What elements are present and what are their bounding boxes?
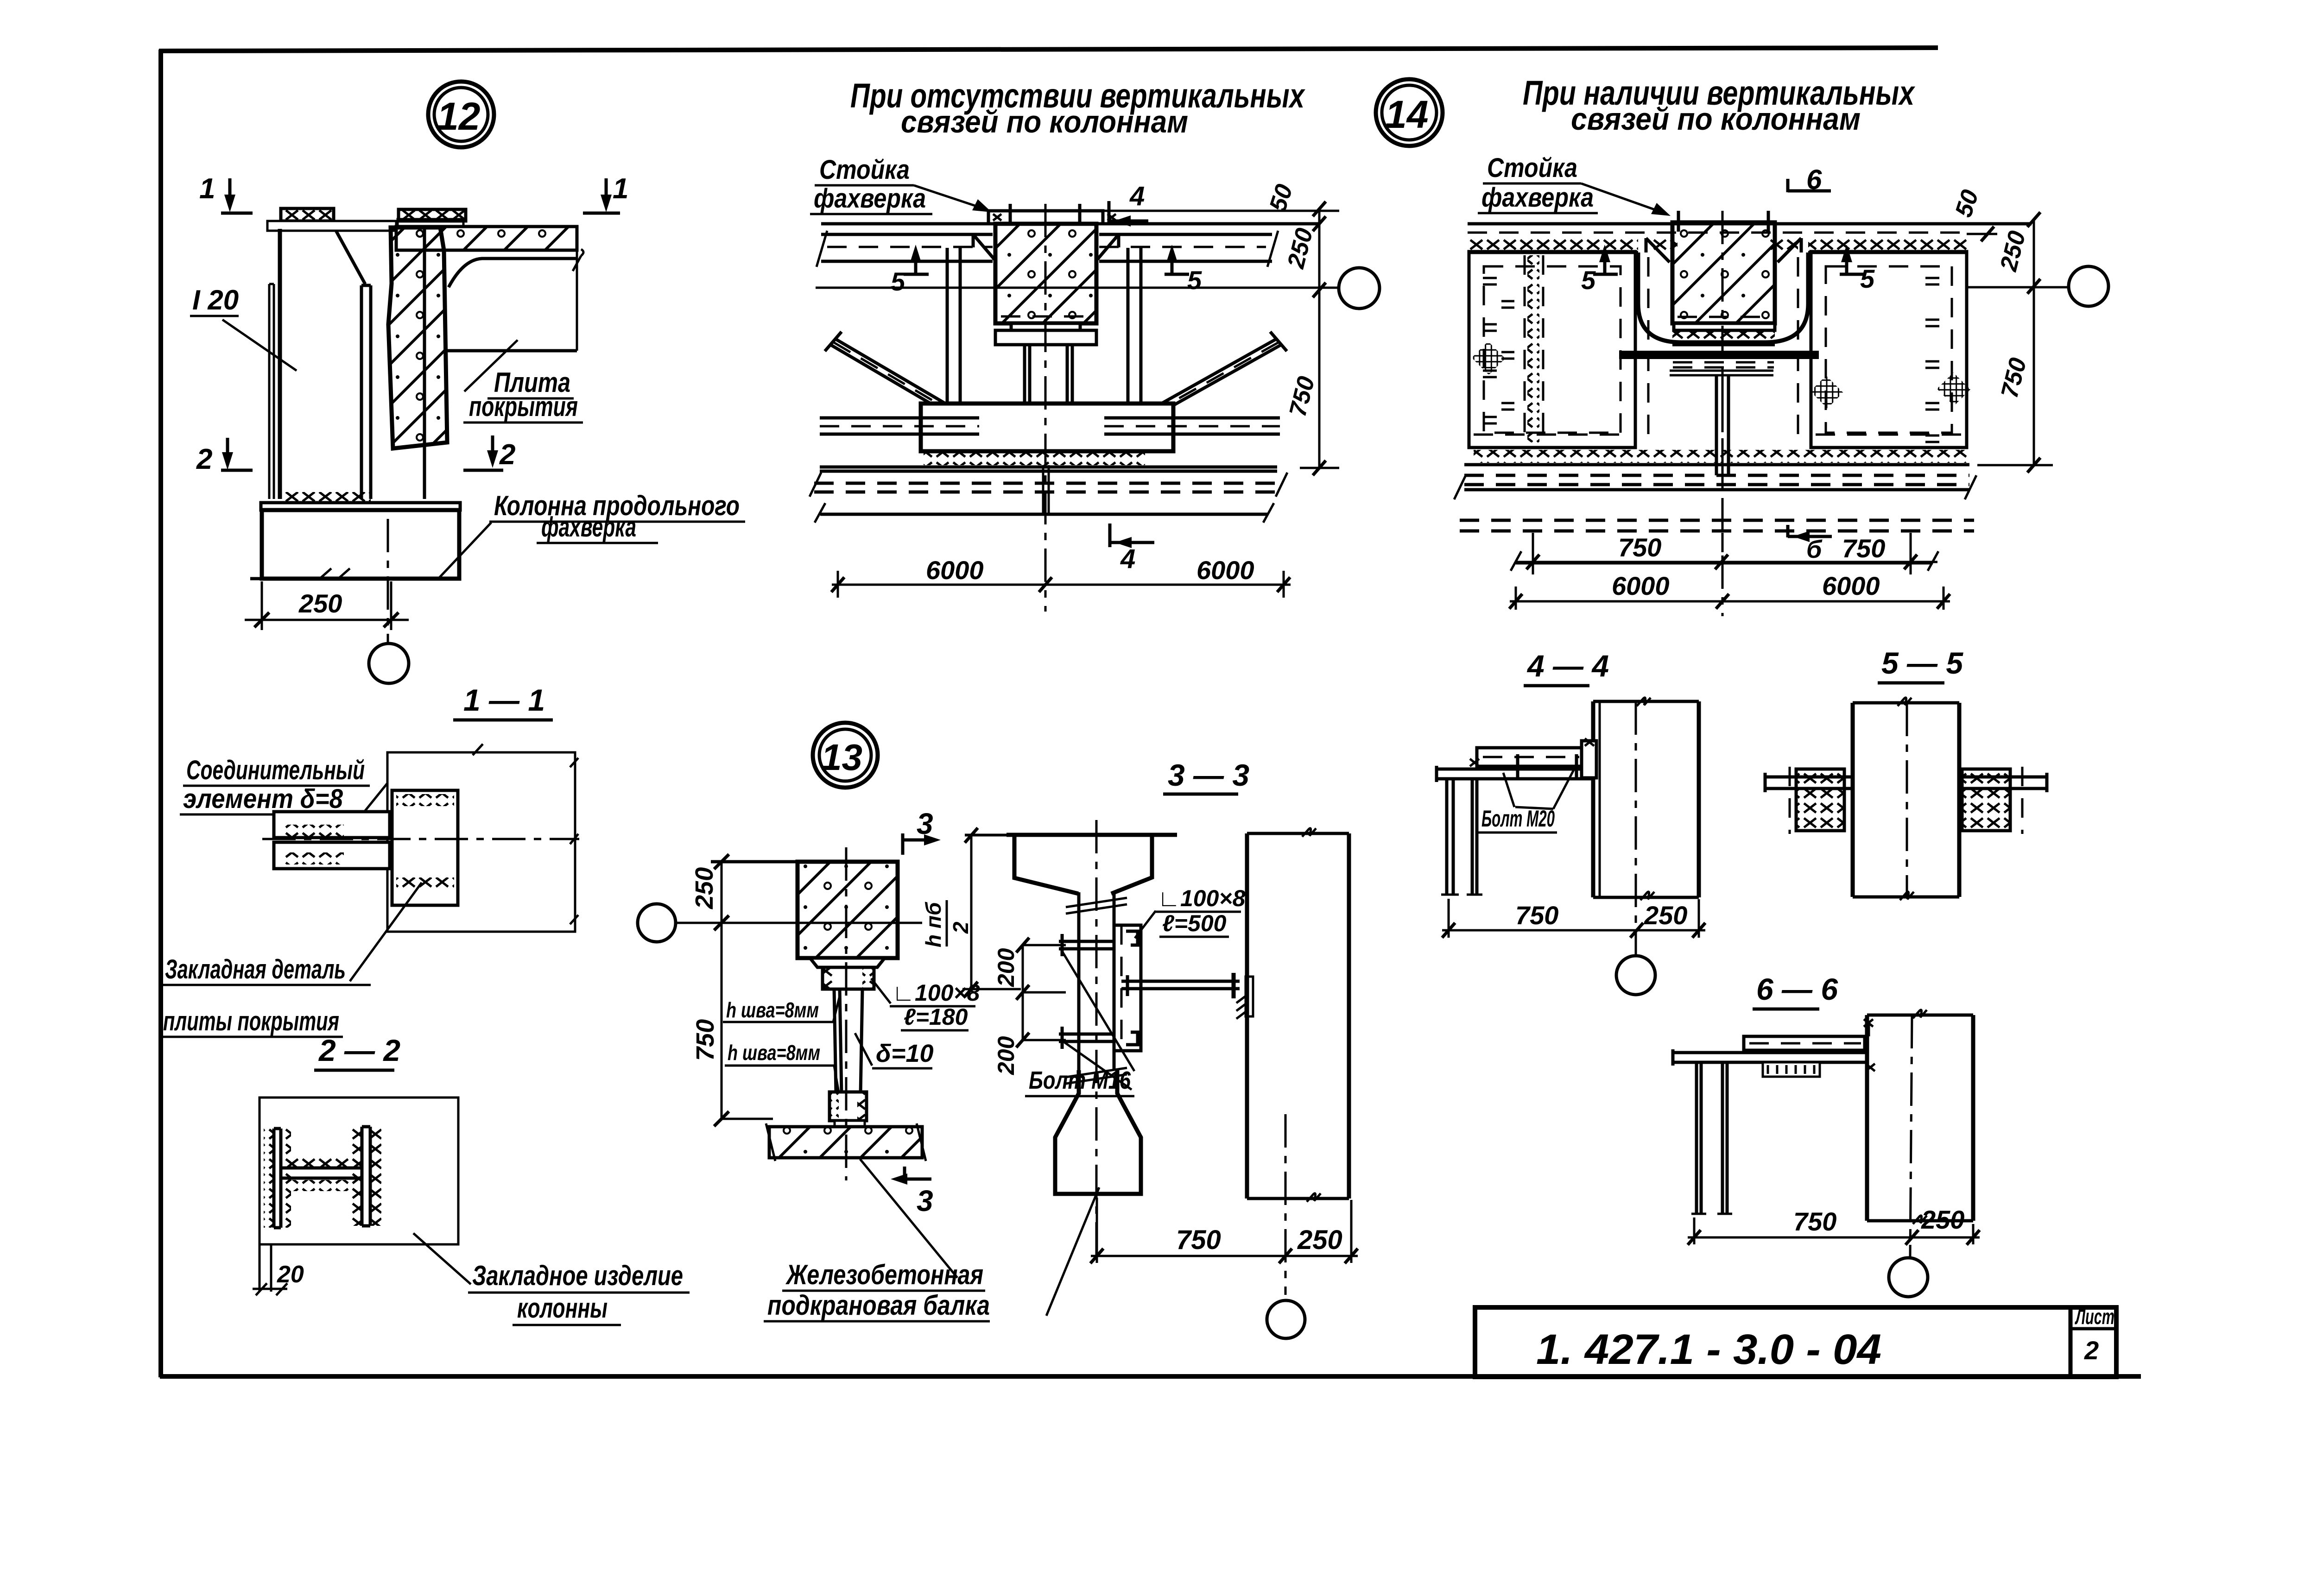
svg-text:750: 750	[1176, 1225, 1221, 1255]
left panel	[1469, 252, 1635, 448]
post bottom dashes	[1001, 315, 1091, 318]
svg-text:6000: 6000	[926, 555, 984, 585]
sheet frame	[159, 48, 2141, 1377]
bottom chord rail left	[820, 418, 979, 434]
post cap plate	[988, 211, 1103, 224]
svg-text:6 — 6: 6 — 6	[1756, 972, 1838, 1006]
column break squiggles	[1302, 828, 1321, 1202]
line under weld row	[1672, 343, 1775, 347]
grid axis line horizontal	[816, 287, 1339, 289]
dim hпб/2 line	[962, 835, 1157, 989]
svg-text:фахверка: фахверка	[814, 183, 926, 214]
beam top edge extension line	[711, 860, 798, 864]
svg-text:5: 5	[1187, 265, 1202, 295]
console trapezoid	[810, 958, 885, 967]
grid bubble right	[2069, 266, 2108, 306]
T-stub legs	[1697, 1062, 1727, 1214]
fachwerk post (concrete)	[1672, 222, 1775, 323]
end slashes lower lines	[810, 473, 1287, 523]
dim 750/250 bottom	[1091, 1198, 1358, 1263]
embed plate on slab	[398, 219, 463, 227]
weld hatch block on strip	[399, 209, 466, 221]
column centerline	[1635, 701, 1637, 955]
svg-text:3: 3	[917, 1184, 933, 1218]
dim 750/250	[1688, 1218, 1980, 1244]
brace connection weld column in left panel	[1527, 255, 1539, 442]
slab right end line with break	[576, 227, 578, 351]
angle at column face	[1582, 741, 1596, 778]
svg-text:200: 200	[993, 1036, 1019, 1075]
weld row top of vertical plate	[396, 794, 454, 806]
svg-text:750: 750	[1793, 1207, 1836, 1236]
leader to embed plate	[350, 883, 422, 981]
fachwerk post (concrete)	[995, 224, 1096, 323]
embed plate 2 (vertical)	[362, 1127, 370, 1226]
horizontal plate	[1673, 1049, 1867, 1066]
lower beam line	[1516, 561, 1933, 565]
svg-text:2: 2	[499, 439, 515, 471]
tie rod bolt at column	[1232, 973, 1236, 998]
column 4-4	[1593, 701, 1699, 897]
svg-text:фахверка: фахверка	[1481, 183, 1594, 213]
section mark 3 (bottom)	[905, 1167, 931, 1179]
svg-text:750: 750	[1996, 355, 2032, 401]
lower sole plate	[835, 1121, 865, 1127]
stub weld columns	[1012, 407, 1024, 451]
weld rows connecting plate	[287, 1155, 359, 1167]
vertical centerline of detail	[1722, 211, 1724, 616]
lower beam line	[820, 513, 1268, 516]
connecting plate horizontal	[281, 1168, 362, 1178]
title block divider (Лист column)	[2069, 1307, 2073, 1377]
post sole plate	[1674, 323, 1775, 330]
beam lines below	[1464, 463, 1969, 467]
weld row between plates (lower)	[284, 852, 344, 864]
svg-text:250: 250	[1921, 1205, 1964, 1234]
break marks on outline	[473, 744, 578, 844]
dim 250 line	[245, 619, 409, 621]
svg-text:250: 250	[1644, 901, 1687, 930]
svg-text:4: 4	[1129, 181, 1145, 211]
svg-text:фахверка: фахверка	[541, 511, 636, 543]
svg-text:элемент δ=8: элемент δ=8	[183, 784, 343, 814]
svg-text:Закладная деталь: Закладная деталь	[165, 954, 346, 984]
title block outline	[1475, 1307, 2116, 1377]
dash rows under bar	[1673, 362, 1774, 367]
weld columns plate 2	[351, 1129, 361, 1226]
crane beam flange (concrete)	[769, 1127, 922, 1158]
right dim chain 50/250/750	[1103, 209, 1339, 468]
svg-text:4: 4	[1120, 544, 1135, 574]
svg-text:ℓ=500: ℓ=500	[1162, 910, 1227, 936]
dim 250 extension lines	[262, 581, 391, 630]
T-stub legs	[1447, 779, 1477, 895]
hidden dashed pair	[814, 483, 1283, 492]
vertical centerline of detail	[1045, 204, 1047, 612]
cross-hatch diamond left	[1472, 341, 1505, 375]
svg-text:h шва=8мм: h шва=8мм	[726, 998, 819, 1022]
svg-text:Стойка: Стойка	[1487, 153, 1577, 183]
bearing bar (thick)	[1619, 351, 1819, 359]
svg-text:колонны: колонны	[517, 1293, 608, 1324]
weld columns plate 1	[264, 1129, 273, 1228]
svg-text:h пб: h пб	[921, 902, 945, 947]
leader from 3-3 column	[1046, 1187, 1099, 1316]
svg-text:I 20: I 20	[192, 284, 239, 315]
embed plate 1 (vertical)	[274, 1129, 281, 1228]
leader with arrow to post	[914, 185, 986, 209]
dim text hпб/2 (rotated fraction)	[921, 900, 973, 947]
right hatched plate	[1962, 769, 2010, 831]
crane beam bottom block	[1055, 1070, 1141, 1194]
svg-text:Соединительный: Соединительный	[186, 755, 365, 785]
end break slashes	[817, 231, 1278, 267]
column left edge	[278, 229, 282, 499]
column right edge	[423, 227, 426, 499]
brace diagonal left	[830, 340, 959, 416]
weld xx row bottom	[1474, 450, 1967, 463]
fachwerk column head (concrete)	[798, 862, 898, 958]
tie rod to column	[1121, 975, 1240, 996]
left hatched plate	[1796, 769, 1844, 831]
title block	[1475, 1305, 2116, 1377]
svg-text:2: 2	[196, 443, 212, 475]
dim vertical line (250/750)	[721, 862, 723, 1119]
svg-text:покрытия: покрытия	[469, 391, 578, 422]
svg-text:1. 427.1 - 3.0 - 04: 1. 427.1 - 3.0 - 04	[1536, 1326, 1881, 1373]
slab haunch fillet curve	[449, 259, 577, 287]
svg-text:5: 5	[1860, 264, 1875, 293]
side wedges under slab	[973, 234, 1119, 259]
right edge tick marks	[570, 758, 578, 924]
post plate	[834, 989, 862, 1094]
svg-text:2: 2	[949, 921, 973, 934]
frame left border	[158, 50, 163, 1377]
column face outline	[260, 1098, 458, 1244]
slab soffit lines	[1468, 251, 1967, 254]
leader to plate	[413, 1233, 471, 1284]
roof top line left	[821, 222, 988, 226]
right dim chain 50/250/750	[1967, 220, 2053, 465]
clip angle on column face	[1246, 977, 1253, 1016]
detail 13	[638, 723, 1099, 1321]
bolted connection plate on web	[1114, 925, 1141, 1051]
grid bubble below detail 12	[369, 643, 409, 683]
grid bubble right	[1339, 268, 1380, 309]
weld xx row under sole	[1672, 332, 1775, 344]
cross-hatch diamond right	[1937, 372, 1970, 406]
svg-text:1 — 1: 1 — 1	[463, 683, 545, 717]
roof slab rib (concrete, hatched)	[388, 227, 447, 448]
horizontal plate upper	[274, 812, 390, 838]
side wedges beside post	[1646, 238, 1801, 262]
svg-text:250: 250	[1282, 226, 1318, 271]
svg-text:250: 250	[1297, 1225, 1342, 1255]
weld hatch row above base plate	[283, 492, 371, 504]
svg-text:Закладное изделие: Закладное изделие	[472, 1260, 683, 1291]
post sole plate	[1011, 323, 1080, 330]
seat cup outline	[1638, 252, 1808, 342]
column 6-6	[1867, 1015, 1973, 1221]
post bottom dashes	[1678, 316, 1770, 318]
right panel	[1811, 252, 1967, 448]
frame bottom border	[160, 1374, 2141, 1379]
roof slab top flange (concrete)	[396, 227, 577, 250]
gusset weld row	[924, 451, 1145, 465]
detail 12	[190, 82, 745, 683]
svg-text:750: 750	[1515, 901, 1558, 930]
svg-text:Стойка: Стойка	[819, 155, 910, 185]
section 3-3	[921, 758, 1358, 1338]
svg-text:1: 1	[199, 173, 215, 205]
leaders to plate	[1503, 770, 1574, 809]
column base plate	[261, 503, 460, 510]
bolt M16 upper	[1059, 934, 1114, 956]
roof top line right	[1103, 222, 1318, 226]
section 1-1	[160, 683, 579, 1037]
cup side dashed verticals	[1648, 257, 1798, 445]
leader to column	[438, 523, 491, 579]
dashed lines inside panels near bottom	[1474, 434, 1962, 436]
svg-text:250: 250	[690, 867, 718, 909]
svg-text:12: 12	[437, 95, 480, 138]
top chord right segment	[1099, 234, 1272, 261]
bracket horizontal plate	[1437, 766, 1593, 782]
detail bubble 12	[428, 82, 494, 147]
leaders to bolts	[1061, 950, 1134, 1090]
grid bubble left	[638, 904, 676, 942]
crane beam web	[1079, 892, 1114, 1070]
right rail	[1959, 773, 2047, 792]
svg-text:1: 1	[613, 173, 628, 205]
slab rib bottom edge line	[446, 349, 577, 353]
horizontal plate lower	[274, 842, 390, 869]
dim 750 750	[1516, 533, 1937, 574]
cross-hatch diamond center	[1811, 376, 1843, 409]
bent plate on top	[1744, 1036, 1865, 1050]
center stub post	[1716, 375, 1728, 475]
truss hanger verticals left	[947, 248, 960, 404]
svg-text:δ=10: δ=10	[876, 1040, 934, 1067]
cap bolts	[1010, 204, 1080, 224]
svg-text:∟100×8: ∟100×8	[1158, 885, 1246, 911]
svg-text:5 — 5: 5 — 5	[1881, 646, 1963, 680]
weld x marks	[1864, 1019, 1875, 1071]
beam centerline	[1095, 820, 1098, 1256]
column face outline rect	[387, 752, 575, 932]
section mark 6 (bottom)	[1788, 525, 1832, 537]
clip ticks right panel inner edge	[1925, 278, 1939, 442]
stub continuation to beam	[1043, 465, 1049, 514]
grid bubble 6-6	[1889, 1258, 1928, 1297]
column web cut diagonal	[336, 231, 365, 284]
grid bubble 3-3	[1267, 1300, 1305, 1338]
column centerline	[1906, 703, 1908, 897]
svg-text:6000: 6000	[1612, 571, 1670, 600]
svg-text:h шва=8мм: h шва=8мм	[728, 1041, 820, 1065]
svg-text:2 — 2: 2 — 2	[318, 1033, 400, 1067]
weld x marks at cap	[993, 214, 1116, 221]
svg-text:4 — 4: 4 — 4	[1526, 649, 1609, 683]
detail bubble 13	[813, 723, 878, 788]
frame top border	[159, 48, 1938, 51]
ground line	[250, 577, 461, 580]
section mark 4 (bottom)	[1110, 524, 1154, 547]
svg-text:750: 750	[1842, 534, 1885, 563]
svg-text:14: 14	[1385, 93, 1428, 136]
foundation centerline	[387, 519, 389, 643]
upper bearing with welds	[823, 967, 874, 989]
column centerline	[1285, 1114, 1287, 1295]
vertical embed plate	[392, 790, 458, 905]
grid axis line to bubble	[675, 922, 922, 924]
svg-text:связей по колоннам: связей по колоннам	[901, 104, 1188, 139]
column centerline	[1910, 1015, 1912, 1257]
leader with arrow to post	[1581, 183, 1665, 213]
dim 200/200 line	[1023, 945, 1066, 1040]
svg-text:200: 200	[993, 948, 1019, 987]
svg-text:6000: 6000	[1196, 555, 1254, 585]
post shoe	[995, 330, 1096, 345]
svg-text:13: 13	[821, 737, 862, 778]
outline left edge extension	[260, 1244, 271, 1292]
svg-text:750: 750	[691, 1019, 719, 1061]
dim 6000 6000	[1510, 587, 1950, 610]
svg-text:ℓ=180: ℓ=180	[904, 1004, 968, 1030]
column 5-5	[1853, 703, 1959, 897]
grid bubble 4-4	[1616, 956, 1655, 995]
svg-text:связей по колоннам: связей по колоннам	[1571, 101, 1861, 137]
weld row bottom of vertical plate	[396, 877, 454, 889]
weld xx row under slab	[1468, 237, 1638, 250]
detail bubble 14	[1376, 79, 1443, 146]
lower bearing with welds	[829, 1092, 867, 1121]
column top plate with weld hatch	[281, 208, 334, 221]
weld row between plates (upper)	[284, 825, 344, 837]
svg-text:250: 250	[298, 589, 342, 618]
horizontal centerline	[262, 838, 579, 840]
web break marks upper	[1066, 898, 1127, 914]
svg-text:2: 2	[2084, 1336, 2099, 1365]
column inner flange lines	[361, 285, 371, 499]
weld x marks	[1470, 738, 1594, 766]
detail 14 left drawing (no vertical braces)	[810, 76, 1443, 612]
bracket below plate	[1763, 1062, 1820, 1077]
svg-text:Болт М16: Болт М16	[1029, 1066, 1131, 1094]
clip ticks left panel inner edge	[1483, 278, 1514, 423]
left rail	[1765, 773, 1853, 792]
svg-text:750: 750	[1284, 374, 1320, 419]
crane beam top flange	[1007, 835, 1177, 894]
grid axis line to bubble	[1967, 286, 2069, 289]
web break marks lower	[1066, 1068, 1127, 1084]
beam top lines below gusset	[820, 467, 1277, 471]
svg-text:5: 5	[891, 267, 905, 296]
detail 14 right drawing (with vertical braces)	[1454, 74, 2108, 616]
svg-text:6000: 6000	[1822, 571, 1880, 600]
steel stub post below shoe	[1025, 345, 1072, 451]
truss hanger verticals right	[1128, 248, 1141, 404]
top steel strip plate	[267, 221, 396, 231]
vertical centerline detail 13	[845, 847, 848, 1180]
svg-text:5: 5	[1581, 265, 1596, 295]
post cap bolts	[1678, 211, 1768, 232]
bolt M16 lower	[1059, 1027, 1114, 1049]
svg-text:250: 250	[1995, 228, 2031, 274]
bent plate on top	[1477, 748, 1583, 766]
break slashes on flange ends	[766, 1123, 926, 1161]
svg-text:подкрановая балка: подкрановая балка	[767, 1290, 990, 1321]
svg-text:Лист: Лист	[2075, 1305, 2114, 1329]
top chord left segment	[821, 234, 993, 261]
dim 750/250	[1442, 899, 1705, 938]
svg-text:3 — 3: 3 — 3	[1168, 758, 1249, 792]
section 2-2	[253, 1033, 690, 1325]
column 3-3	[1247, 833, 1349, 1199]
gusset plate	[921, 404, 1173, 451]
sections 4-4 5-5 6-6	[1437, 649, 1705, 995]
leader to bearing angle	[871, 978, 891, 1003]
end slashes	[1454, 475, 1976, 571]
leader from crane beam	[860, 1159, 957, 1278]
bottom chord rail right	[1104, 418, 1280, 434]
svg-text:750: 750	[1618, 533, 1661, 562]
leader to slab	[464, 340, 518, 391]
shoe plate	[1670, 371, 1773, 375]
svg-text:б: б	[1806, 536, 1823, 563]
brace diagonal right	[1152, 340, 1281, 414]
leader to element	[353, 782, 388, 826]
svg-text:50: 50	[1950, 187, 1984, 221]
svg-text:плиты покрытия: плиты покрытия	[163, 1006, 339, 1036]
foundation block	[262, 510, 459, 579]
roof slab top line	[1468, 222, 2032, 226]
leader to plate	[1135, 911, 1156, 938]
svg-text:20: 20	[277, 1261, 304, 1288]
dim 6000 6000	[832, 571, 1291, 598]
